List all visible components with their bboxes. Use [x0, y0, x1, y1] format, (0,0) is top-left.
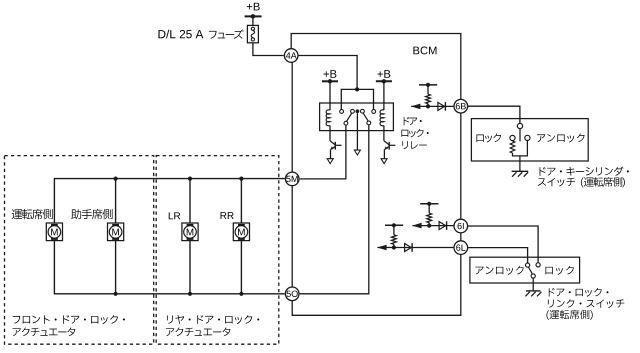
- label door lock relay line1: [404, 117, 422, 125]
- wire 4A to relay common: [299, 56, 358, 90]
- relay armature pivot right: [361, 109, 365, 113]
- label passenger side: [71, 209, 112, 219]
- key switch moving contact: [519, 129, 521, 142]
- wire actuator branch x=241.4: [240, 179, 242, 223]
- junction top rail: [239, 177, 243, 181]
- label lock (link switch): [545, 266, 573, 275]
- label door lock relay line2: [401, 129, 428, 138]
- link switch armature: [528, 267, 532, 274]
- wire actuator branch x=190: [189, 179, 191, 223]
- resistor 6L: [392, 235, 397, 245]
- wire 6L row: [377, 247, 453, 249]
- diode 6I: [439, 222, 446, 230]
- junction 6L: [392, 245, 396, 249]
- wire 6I row: [412, 225, 453, 227]
- +B terminal right (relay coil): [377, 70, 390, 78]
- label door lock link switch line3: [546, 310, 592, 320]
- arrow to lock circuits: [412, 223, 422, 229]
- ground arrow Q1: [327, 159, 333, 164]
- resistor key switch: [510, 141, 515, 153]
- wire link switch to ground: [532, 278, 534, 291]
- relay fixed contact left: [340, 110, 344, 114]
- label door lock relay line3: [402, 141, 427, 149]
- label D/L 25 A fuse: [158, 30, 203, 39]
- connector 4A: [284, 49, 298, 63]
- label rear door lock actuator line1: [167, 315, 259, 324]
- pull-up bar 6I: [420, 203, 438, 205]
- wire 6B to key cylinder switch: [468, 106, 520, 123]
- wire actuator branch x=115.6: [115, 179, 117, 223]
- junction bottom rail: [239, 292, 243, 296]
- relay armature right: [363, 113, 368, 121]
- connector 6B: [454, 99, 468, 113]
- label unlock (key switch): [537, 134, 584, 143]
- diode 6B: [438, 102, 445, 110]
- +B terminal left (relay coil): [324, 70, 337, 78]
- relay common junction: [356, 109, 360, 113]
- label key cylinder switch line1: [540, 167, 629, 176]
- label rear door lock actuator line2: [166, 327, 230, 336]
- pull-up bar 6L: [385, 224, 403, 226]
- label front door lock actuator line2: [13, 327, 76, 336]
- link switch unlock contact: [526, 263, 530, 267]
- label LR: [169, 212, 180, 219]
- label key cylinder switch line2: [538, 177, 625, 187]
- junction bottom rail: [188, 292, 192, 296]
- junction relay feed: [355, 87, 359, 91]
- motor LR actuator: [182, 223, 198, 241]
- key cylinder switch box: [471, 119, 588, 161]
- label door lock link switch line1: [549, 288, 609, 297]
- link switch box: [470, 257, 580, 283]
- pull-up bar 6B: [419, 84, 437, 86]
- relay moving contact right: [367, 121, 371, 125]
- wire relay right contact to 5O: [300, 125, 369, 294]
- resistor 6B: [426, 94, 431, 104]
- label RR: [221, 212, 234, 219]
- key switch common contact: [517, 123, 522, 128]
- BCM label: [413, 46, 436, 54]
- junction bottom rail: [114, 292, 118, 296]
- connector 5O: [285, 287, 299, 301]
- wire fuse to connector 4A: [253, 43, 284, 56]
- relay contact feed bar: [341, 89, 373, 109]
- ground link switch: [526, 290, 541, 292]
- wire relay left contact to 5M: [300, 125, 346, 179]
- dashed box rear door lock actuators: [156, 156, 279, 345]
- label fuse katakana: [209, 29, 244, 38]
- wire key switch to ground: [519, 156, 521, 171]
- junction 6I: [427, 224, 431, 228]
- junction top rail: [188, 177, 192, 181]
- +B battery feed (fuse): [247, 3, 260, 11]
- ground key cylinder switch: [512, 170, 529, 172]
- relay armature pivot left: [351, 109, 355, 113]
- wire 6I to link switch: [468, 226, 539, 262]
- connector 6I: [454, 219, 468, 233]
- relay coil right: [380, 110, 384, 126]
- bottom rail to 5O: [54, 241, 284, 294]
- key switch unlock contact: [525, 135, 530, 140]
- relay box: [320, 103, 394, 131]
- motor RR actuator: [233, 223, 249, 241]
- fuse D/L 25 A: [247, 25, 258, 42]
- label driver side: [12, 209, 53, 219]
- link switch common contact: [531, 274, 535, 278]
- diode 6L: [405, 244, 412, 252]
- top rail to 5M: [54, 179, 284, 223]
- relay fixed contact right: [372, 110, 376, 114]
- wire 6B row: [411, 105, 453, 107]
- relay moving contact left: [344, 121, 348, 125]
- connector 5M: [285, 172, 299, 186]
- label unlock (link switch): [475, 266, 523, 275]
- motor passenger side front actuator: [108, 223, 124, 241]
- transistor Q1 (left coil driver): [330, 141, 342, 159]
- BCM box outline: [291, 34, 461, 100]
- key switch lock contact: [510, 135, 515, 140]
- wire 6L to link switch: [468, 248, 528, 263]
- arrow relay common: [354, 150, 360, 155]
- motor driver side front actuator: [46, 223, 62, 241]
- wire relay common to driver arrow: [356, 113, 358, 150]
- relay armature left: [347, 113, 352, 121]
- ground arrow Q2: [381, 159, 387, 164]
- dashed box front door lock actuators: [5, 156, 154, 345]
- junction top rail: [114, 177, 118, 181]
- arrow to unlock circuits: [377, 245, 387, 251]
- wire +B to fuse: [252, 16, 254, 25]
- connector 6L: [454, 241, 468, 255]
- link switch lock contact: [536, 263, 540, 267]
- junction 6B: [426, 104, 430, 108]
- arrow to door unlock circuits: [411, 104, 421, 110]
- relay coil left: [326, 110, 330, 126]
- label front door lock actuator line1: [13, 315, 125, 324]
- resistor 6I: [427, 213, 432, 223]
- label door lock link switch line2: [548, 299, 624, 308]
- label lock (key switch): [476, 134, 501, 143]
- transistor Q2 (right coil driver): [384, 141, 396, 159]
